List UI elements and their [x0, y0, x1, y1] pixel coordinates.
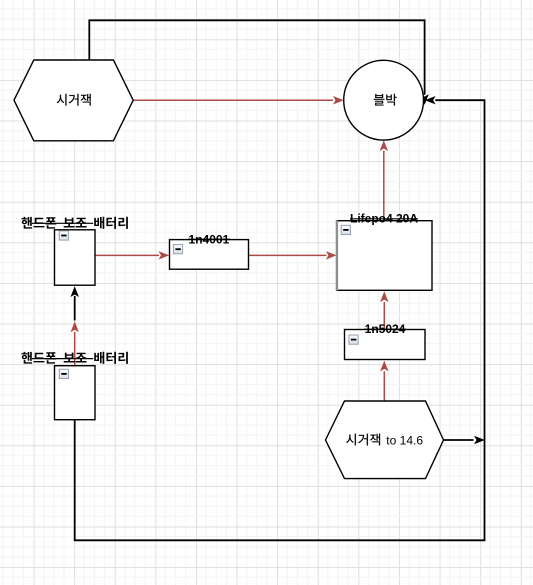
hexagon 시거잭 to 14.6 (boost converter) [326, 401, 444, 479]
wire: red arrow battery2 top up to node (74.7,321) [74, 332, 76, 365]
circle node 블박 (dashcam) [344, 60, 424, 140]
svg-text:to 14.6: to 14.6 [386, 433, 423, 447]
strike line over battery1 label [32, 222, 93, 224]
wire: hexagon2 시거잭 to 14.6 right to right loop (black arrow) [444, 439, 474, 441]
battery box 2 핸드폰 보조 배터리 [55, 366, 96, 420]
wire: red arrow battery1 right to 1n4001 left [95, 254, 159, 256]
wire: red arrow hexagon1 시거잭 to 블박 circle left [133, 99, 333, 101]
strike line over battery2 label [32, 358, 93, 360]
wire: red arrow 1n4001 right to Lifepo4 left [249, 254, 327, 256]
wire: red arrow Lifepo4 top to 블박 circle bottom [383, 151, 385, 221]
hexagon 시거잭 (cigarette jack source) [14, 60, 133, 141]
wire: hexagon 시거잭 top to 블박 circle right (black, over the top) [89, 20, 424, 95]
diode box 1n5024 [345, 330, 426, 360]
wire: red arrow hexagon2 top to 1n5024 bottom [383, 371, 385, 401]
diode box 1n4001 [170, 240, 249, 270]
wire: battery2 bottom loop right side up to 블박 circle right (black) [75, 100, 485, 540]
battery box 1 핸드폰 보조 배터리 [55, 230, 96, 285]
wire: red arrow 1n5024 top to Lifepo4 bottom [383, 302, 385, 329]
wire: black arrow from node (74.7,320) up into battery1 bottom [74, 296, 76, 321]
battery box Lifepo4 20A [337, 221, 432, 291]
